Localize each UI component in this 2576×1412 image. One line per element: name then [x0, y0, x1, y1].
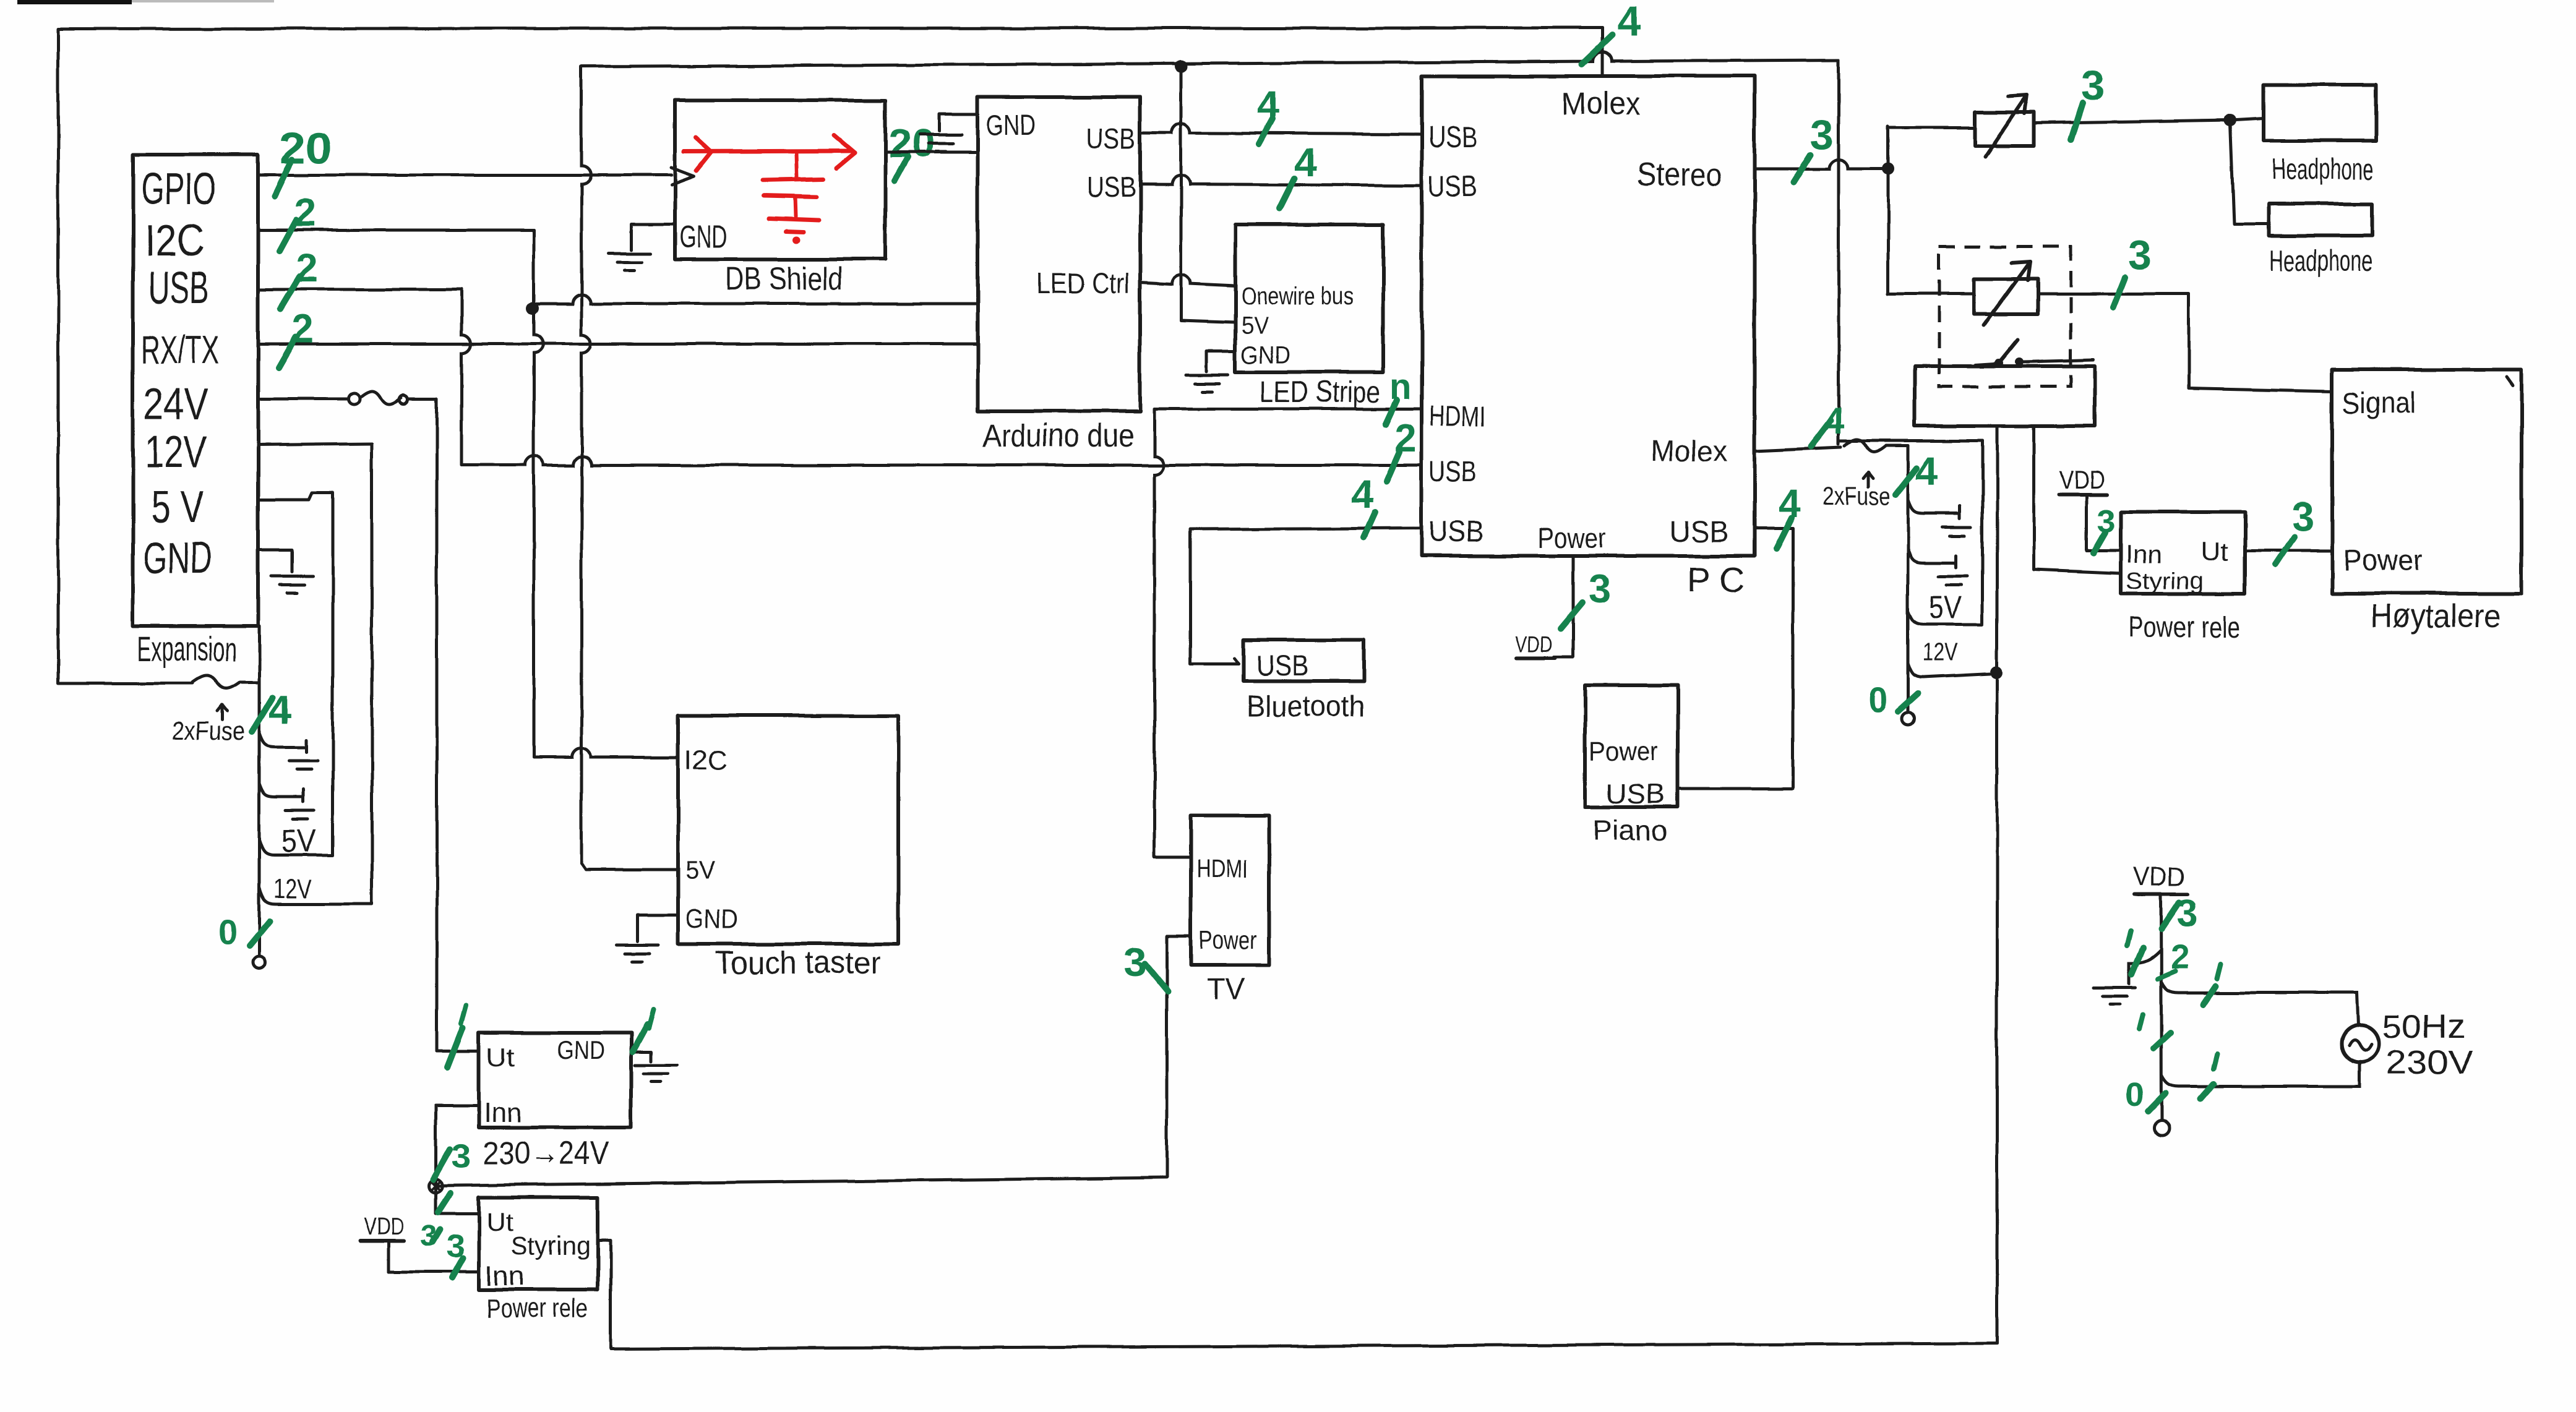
svg-text:VDD: VDD — [364, 1214, 405, 1240]
svg-text:GND: GND — [679, 220, 728, 254]
svg-text:5V: 5V — [1241, 312, 1268, 340]
svg-text:Styring: Styring — [511, 1231, 590, 1260]
svg-text:GND: GND — [986, 109, 1036, 141]
svg-text:12V: 12V — [273, 874, 312, 904]
svg-text:GND: GND — [685, 904, 739, 934]
svg-text:Headphone: Headphone — [2272, 153, 2374, 186]
svg-text:Signal: Signal — [2342, 387, 2415, 420]
svg-text:GND: GND — [144, 534, 212, 583]
svg-text:24V: 24V — [144, 380, 208, 429]
svg-text:3: 3 — [452, 1136, 471, 1175]
svg-text:Ut: Ut — [486, 1207, 513, 1236]
svg-text:RX/TX: RX/TX — [141, 328, 219, 372]
svg-text:USB: USB — [148, 263, 209, 313]
svg-text:Headphone: Headphone — [2269, 245, 2373, 278]
svg-text:5V: 5V — [685, 855, 715, 884]
svg-text:USB: USB — [1086, 171, 1136, 203]
svg-text:I2C: I2C — [145, 216, 204, 266]
svg-text:n: n — [1389, 367, 1411, 407]
svg-text:12V: 12V — [1923, 639, 1959, 666]
svg-text:Inn: Inn — [484, 1098, 522, 1128]
svg-text:Molex: Molex — [1561, 86, 1641, 122]
svg-text:USB: USB — [1606, 779, 1665, 809]
svg-text:2: 2 — [292, 307, 314, 351]
svg-text:2xFuse: 2xFuse — [172, 716, 245, 745]
svg-text:230→24V: 230→24V — [483, 1136, 609, 1171]
svg-text:USB: USB — [1086, 122, 1136, 155]
svg-text:2xFuse: 2xFuse — [1823, 483, 1891, 510]
svg-text:HDMI: HDMI — [1429, 400, 1486, 432]
svg-text:Power rele: Power rele — [2128, 611, 2239, 644]
svg-text:Bluetooth: Bluetooth — [1246, 690, 1365, 723]
svg-text:3: 3 — [1589, 567, 1611, 611]
svg-text:VDD: VDD — [2059, 465, 2105, 494]
svg-text:2: 2 — [294, 190, 317, 235]
svg-text:4: 4 — [1915, 448, 1938, 494]
svg-text:USB: USB — [1428, 171, 1477, 203]
svg-text:Touch taster: Touch taster — [715, 945, 881, 981]
svg-text:USB: USB — [1256, 649, 1309, 682]
svg-text:Power: Power — [1199, 925, 1257, 954]
svg-text:Inn: Inn — [2126, 539, 2162, 568]
svg-text:TV: TV — [1206, 973, 1245, 1006]
svg-text:3: 3 — [2128, 232, 2152, 279]
svg-text:4: 4 — [1257, 83, 1279, 127]
svg-text:0: 0 — [1868, 680, 1887, 719]
svg-text:Inn: Inn — [485, 1261, 525, 1291]
svg-text:I2C: I2C — [684, 745, 728, 776]
svg-text:3: 3 — [1810, 111, 1834, 158]
svg-text:GND: GND — [1241, 342, 1290, 369]
svg-text:Power: Power — [1538, 522, 1606, 554]
svg-text:DB Shield: DB Shield — [725, 261, 843, 297]
svg-text:USB: USB — [1429, 455, 1476, 487]
svg-text:5 V: 5 V — [151, 482, 204, 532]
svg-text:GPIO: GPIO — [141, 165, 217, 214]
svg-text:Power: Power — [2343, 544, 2423, 577]
svg-text:Arduino due: Arduino due — [982, 418, 1134, 454]
svg-text:Piano: Piano — [1592, 814, 1668, 846]
svg-text:4: 4 — [1351, 473, 1373, 517]
svg-text:Power rele: Power rele — [486, 1293, 588, 1324]
svg-text:Onewire bus: Onewire bus — [1241, 283, 1354, 310]
svg-text:4: 4 — [268, 687, 291, 732]
svg-text:USB: USB — [1429, 516, 1483, 549]
svg-text:0: 0 — [218, 912, 237, 951]
svg-text:P C: P C — [1688, 560, 1745, 599]
svg-text:Styring: Styring — [2126, 568, 2204, 594]
svg-text:Stereo: Stereo — [1637, 157, 1722, 193]
svg-text:Ut: Ut — [2201, 537, 2228, 566]
svg-text:50Hz: 50Hz — [2382, 1008, 2466, 1045]
svg-text:3: 3 — [2176, 892, 2197, 935]
svg-text:3: 3 — [2291, 494, 2314, 539]
svg-text:5V: 5V — [1929, 590, 1961, 626]
svg-text:0: 0 — [2126, 1076, 2144, 1113]
svg-text:LED Stripe: LED Stripe — [1260, 376, 1381, 409]
svg-text:USB: USB — [1428, 121, 1477, 154]
svg-text:LED Ctrl: LED Ctrl — [1037, 267, 1130, 299]
svg-text:Ut: Ut — [486, 1043, 515, 1072]
svg-text:2: 2 — [296, 246, 318, 291]
svg-text:Expansion: Expansion — [137, 629, 236, 668]
svg-text:4: 4 — [1617, 0, 1641, 45]
svg-text:USB: USB — [1669, 516, 1728, 549]
svg-text:VDD: VDD — [1516, 631, 1553, 657]
svg-text:230V: 230V — [2385, 1044, 2473, 1081]
svg-text:Power: Power — [1589, 737, 1658, 767]
svg-text:VDD: VDD — [2133, 862, 2185, 892]
svg-text:12V: 12V — [145, 427, 207, 477]
svg-text:HDMI: HDMI — [1196, 854, 1248, 883]
svg-text:4: 4 — [1294, 140, 1316, 185]
svg-text:Høytalere: Høytalere — [2371, 597, 2501, 635]
svg-text:Molex: Molex — [1651, 435, 1727, 468]
svg-text:GND: GND — [557, 1035, 605, 1064]
